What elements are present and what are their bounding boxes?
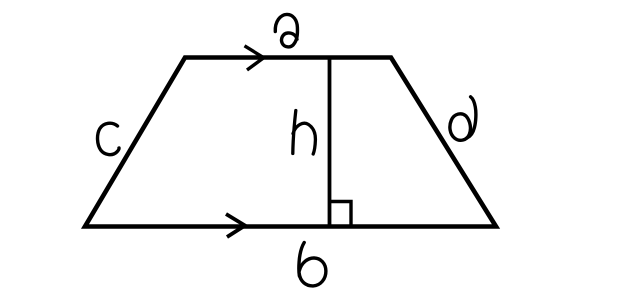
label a (top) [275,14,297,47]
right-angle mark [330,202,352,227]
label b (bottom) [299,243,304,277]
trapezoid outline [85,58,496,227]
bottom parallel arrow [226,214,245,237]
top parallel arrow [245,46,264,70]
label d (right) [467,97,476,138]
label c (left) [98,123,120,154]
label h (middle) [293,111,296,154]
height line h [328,58,332,227]
